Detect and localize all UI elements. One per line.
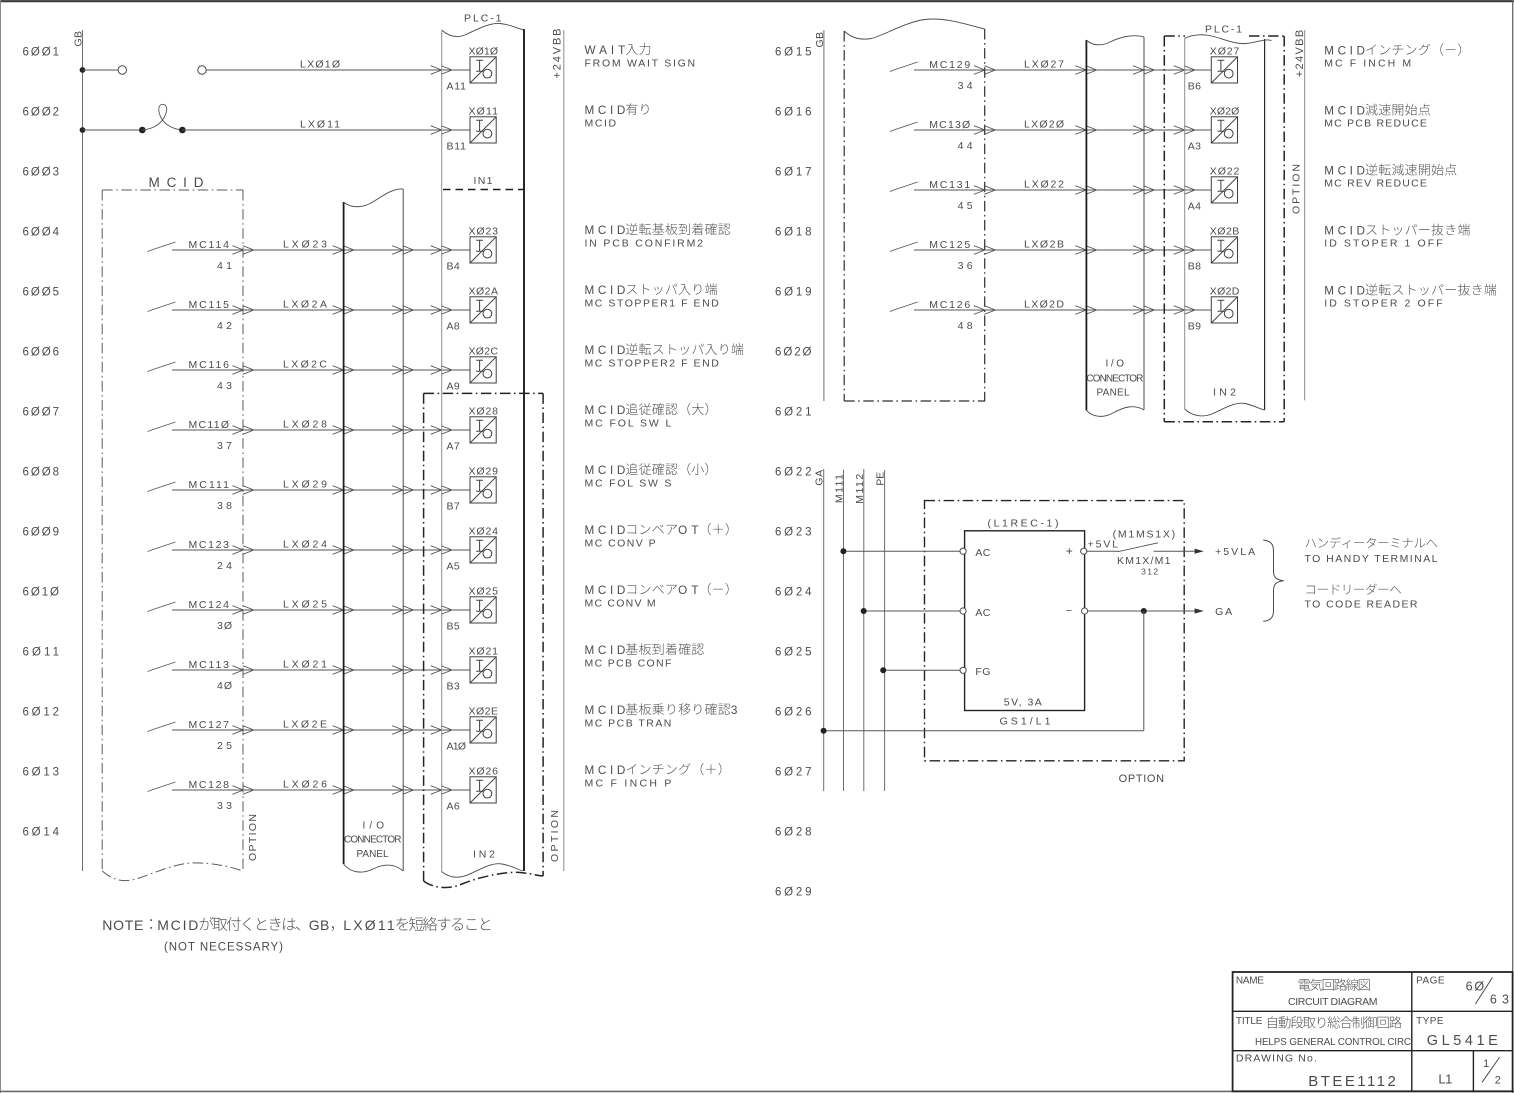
svg-text:+: + [1066,544,1073,558]
svg-text:XØ22: XØ22 [1210,166,1241,178]
svg-text:MC CONV M: MC CONV M [585,598,656,610]
description row 6004: IN PCB CONFIRM2 [585,223,731,237]
arrows (connector crossings) row 6012 [233,726,254,735]
contact switch MC130 [890,122,918,132]
svg-text:A11: A11 [447,81,467,93]
description row 6008: MC FOL SW S [585,463,709,477]
svg-text:XØ25: XØ25 [469,586,500,598]
svg-text:MCID: MCID [585,464,626,477]
PLC I/O input point X023 [470,237,496,263]
arrows (connector crossings) row 6016 [974,126,995,135]
svg-text:B9: B9 [1188,321,1201,333]
PLC-1 right edge [523,29,525,871]
PLC I/O input point X020 [1211,117,1237,143]
svg-text:2: 2 [1495,1074,1501,1086]
wire LX020 row 6016 [914,129,1211,131]
svg-text:6Ø: 6Ø [1466,980,1485,994]
svg-text:A8: A8 [447,321,460,333]
wire LX027 row 6015 [914,69,1211,71]
bus GB (right) [823,30,825,401]
svg-text:B6: B6 [1188,81,1201,93]
svg-text:GB: GB [73,31,85,47]
PLC-1 left edge (right half) [1184,38,1186,409]
svg-text:MC129: MC129 [929,59,970,71]
description row 6012: MC PCB TRAN [585,703,738,717]
PLC-1 break squiggle bottom (right) [1185,403,1265,416]
wire LX02B row 6018 [914,249,1211,251]
brace for external connections [1263,540,1284,621]
svg-text:6ØØ6: 6ØØ6 [23,347,60,359]
svg-text:TITLE: TITLE [1236,1016,1263,1027]
svg-text:6ØØ2: 6ØØ2 [23,107,60,119]
svg-text:6ØØ8: 6ØØ8 [23,467,60,479]
svg-text:B8: B8 [1188,261,1201,273]
contact switch MC124 [148,602,176,612]
svg-text:(L1REC-1): (L1REC-1) [988,518,1059,530]
PLC I/O input point X02B [1211,237,1237,263]
svg-text:3Ø: 3Ø [217,620,232,632]
svg-text:M112: M112 [854,474,866,504]
terminal FG [960,667,966,673]
svg-text:MC126: MC126 [929,299,970,311]
contact switch MC126 [890,302,918,312]
wire LX026 row 6013 [172,789,470,791]
svg-text:MC124: MC124 [189,599,230,611]
wire +5VL output [1087,550,1119,552]
I/O connector panel right: right line [1143,37,1145,410]
terminal AC 1 [960,548,966,554]
svg-text:TYPE: TYPE [1416,1016,1444,1027]
PLC-1 break squiggle top (right) [1185,35,1272,44]
jumper link loop (GB-LX011 short) [142,104,182,130]
description row 6005: MC STOPPER1 F END [585,283,717,297]
PLC I/O input point X025 [470,597,496,623]
svg-text:OPTION: OPTION [247,814,259,861]
title block: 自動段取り総合制御回路 [1268,1016,1402,1028]
svg-text:CONNECTOR: CONNECTOR [344,835,402,846]
svg-text:LXØ11: LXØ11 [343,917,395,933]
arrows (connector crossings) row 6018 [974,246,995,255]
svg-text:FROM WAIT SIGN: FROM WAIT SIGN [585,58,696,70]
svg-text:MC113: MC113 [189,659,230,671]
description TO CODE READER [1307,584,1401,595]
junction on PE [880,667,886,673]
arrow GA [1195,608,1204,613]
svg-text:6ØØ1: 6ØØ1 [23,47,60,59]
svg-text:MC115: MC115 [189,299,230,311]
PLC I/O input point X024 [470,537,496,563]
junction dot right of link [179,127,186,134]
wire LX02C row 6006 [172,369,470,371]
PLC-1 right edge (right half) [1264,39,1266,410]
arrows (connector crossings) row 6013 [233,786,254,795]
title block: 電気回路線図 [1299,979,1370,991]
svg-text:A5: A5 [447,561,460,573]
svg-text:MCID: MCID [585,284,626,297]
junction on GB bus row 6001 [80,67,86,73]
svg-text:FG: FG [975,666,990,678]
PLC-1 left edge [441,31,443,872]
junction on GA output [1141,608,1147,614]
svg-text:NAME: NAME [1236,976,1264,987]
bus M111 [843,470,845,791]
svg-text:312: 312 [1141,567,1158,577]
I/O connector panel left line [343,202,345,864]
description row 6013: MC F INCH P [585,763,722,777]
bus PE [884,470,886,791]
wire LX022 row 6017 [914,189,1211,191]
svg-text:M111: M111 [834,474,846,503]
contact switch MC111 [148,482,176,492]
arrows (connector crossings) row 6019 [974,306,995,315]
svg-text:MCID: MCID [585,644,626,657]
svg-text:XØ2E: XØ2E [469,706,500,718]
svg-text:CIRCUIT DIAGRAM: CIRCUIT DIAGRAM [1288,996,1378,1008]
contact switch MC115 [148,302,176,312]
svg-text:A3: A3 [1188,141,1201,153]
svg-text:MCID: MCID [585,104,626,117]
svg-text:MCID: MCID [585,524,626,537]
contact switch MC128 [148,782,176,792]
svg-text:TO CODE READER: TO CODE READER [1305,599,1418,611]
description row 6009: MC CONV P [585,523,729,537]
svg-text:XØ11: XØ11 [469,106,500,118]
wire LX029 row 6008 [172,489,470,491]
PLC I/O input point X027 [1211,57,1237,83]
contact switch MC113 [148,662,176,672]
wire GB to link row 6002 [83,129,143,131]
svg-text:BTEE1112: BTEE1112 [1308,1073,1396,1090]
description row 6019: ID STOPER 2 OFF [1324,284,1496,298]
arrows (connector crossings) row 6007 [233,426,254,435]
bus M112 [863,469,865,791]
svg-text:6ØØ4: 6ØØ4 [23,227,60,239]
option enclosure box (PLC input group, dash-dot) [424,393,543,887]
I/O connector panel right line [402,189,404,871]
enclosure box MCID (dash-dot) [102,190,243,881]
arrows (connector crossings) row 6008 [233,486,254,495]
svg-text:XØ2C: XØ2C [469,346,500,358]
contact switch MC125 [890,242,918,252]
svg-text:A4: A4 [1188,201,1201,213]
panel break squiggle bottom [344,864,404,872]
svg-text:XØ2A: XØ2A [469,286,500,298]
svg-text:GB: GB [814,32,826,48]
option enclosure box PSU (dash-dot) [925,501,1185,761]
svg-text:A6: A6 [447,801,460,813]
svg-text:6Ø11: 6Ø11 [23,647,60,659]
svg-text:XØ28: XØ28 [469,406,500,418]
svg-text:MC111: MC111 [189,479,230,491]
panel break squiggle top (right) [1086,36,1144,45]
description row 6017: MC REV REDUCE [1324,164,1456,178]
svg-text:OPTION: OPTION [549,810,561,862]
svg-text:MCID: MCID [1324,45,1365,58]
svg-text:PLC-1: PLC-1 [464,13,502,25]
power line +24VBB (left) [563,30,565,871]
svg-text:OPTION: OPTION [1291,164,1303,214]
PLC I/O input point X02C [470,357,496,383]
PLC I/O input point X022 [1211,177,1237,203]
arrows (connector crossings) row 6009 [233,546,254,555]
svg-text:CONNECTOR: CONNECTOR [1086,374,1143,385]
svg-text:KM1X/M1: KM1X/M1 [1117,555,1171,567]
arrows (connector crossings) row 6010 [233,606,254,615]
junction on M112 [861,608,867,614]
svg-text:MC PCB REDUCE: MC PCB REDUCE [1324,118,1427,130]
svg-text:MC11Ø: MC11Ø [189,419,230,431]
svg-text:GB: GB [309,917,330,933]
wire LX02D row 6019 [914,309,1211,311]
arrows (connector crossings) row 6011 [233,666,254,675]
title block frame [1233,972,1513,1091]
svg-text:XØ27: XØ27 [1210,46,1241,58]
svg-text:AC: AC [975,547,990,559]
power supply unit U: L1REC-1 rectangle [965,531,1085,711]
description row 6006: MC STOPPER2 F END [585,343,744,357]
junction on M111 [840,548,846,554]
power line +24VBB (right) [1304,30,1306,400]
svg-text:XØ1Ø: XØ1Ø [469,46,500,58]
svg-text:4Ø: 4Ø [217,680,232,692]
svg-text:MC PCB CONF: MC PCB CONF [585,658,672,670]
wire PE to FG input (6025) [883,669,960,671]
svg-text:MCID: MCID [1324,165,1365,178]
svg-text:MCID: MCID [585,344,626,357]
wire to +5VLA arrow [1154,550,1195,552]
svg-text:XØ29: XØ29 [469,466,500,478]
note text [102,917,490,933]
svg-text:MC123: MC123 [189,539,230,551]
PLC-1 break squiggle bottom [442,864,524,877]
wire M112 to AC input (6024) [864,610,961,612]
svg-text:6Ø1Ø: 6Ø1Ø [23,587,60,599]
svg-text:MC STOPPER2 F END: MC STOPPER2 F END [585,358,720,370]
svg-text:OPTION: OPTION [1119,773,1166,785]
arrow into PLC row 6001 [431,66,452,75]
svg-text:6ØØ5: 6ØØ5 [23,287,60,299]
contact switch MC110 [148,422,176,432]
svg-text:MC FOL SW L: MC FOL SW L [585,418,672,430]
svg-text:+24VBB: +24VBB [552,29,564,79]
description row 6018: ID STOPER 1 OFF [1324,224,1470,238]
svg-text:(M1MS1X): (M1MS1X) [1113,529,1176,541]
contact switch MC127 [148,722,176,732]
arrows (connector crossings) row 6006 [233,366,254,375]
svg-text:+5VLA: +5VLA [1215,546,1255,558]
IN1 section dashed line [443,189,524,191]
wire LX025 row 6010 [172,609,470,611]
svg-text:XØ26: XØ26 [469,766,500,778]
svg-text:IN1: IN1 [474,175,493,187]
terminal circle right row 6001 [198,66,206,74]
svg-text:L1: L1 [1438,1071,1452,1086]
description row 6002: MCID [585,103,649,117]
svg-text:3: 3 [731,704,738,717]
svg-text:AC: AC [975,607,990,619]
svg-text:MCID: MCID [585,704,626,717]
contact switch M1MS1X blade [1118,543,1158,552]
svg-text:HELPS GENERAL CONTROL CIRC: HELPS GENERAL CONTROL CIRC [1255,1037,1411,1048]
panel break squiggle bottom (right) [1086,407,1144,417]
svg-text:−: − [1066,605,1072,617]
junction dot left of link [139,127,146,134]
wire GB to terminal row 6001 [83,69,119,71]
terminal AC 2 [960,608,966,614]
svg-text:TO HANDY TERMINAL: TO HANDY TERMINAL [1305,553,1438,565]
svg-text:MC13Ø: MC13Ø [929,119,970,131]
svg-text:XØ23: XØ23 [469,226,500,238]
wire LX02A row 6005 [172,309,470,311]
bus GB (left) [82,30,84,871]
svg-text:MC116: MC116 [189,359,230,371]
svg-text:1: 1 [1483,1058,1489,1070]
PLC I/O input point X021 [470,657,496,683]
svg-text:WAIT: WAIT [585,44,626,57]
wire LX028 row 6007 [172,429,470,431]
enclosure break squiggle top right [844,19,985,39]
svg-text:6ØØ7: 6ØØ7 [23,407,60,419]
svg-text:6ØØ3: 6ØØ3 [23,167,60,179]
arrows (connector crossings) row 6017 [974,186,995,195]
arrows (connector crossings) row 6005 [233,306,254,315]
svg-text:XØ2Ø: XØ2Ø [1210,106,1241,118]
svg-text:B5: B5 [447,621,460,633]
arrow +5VLA [1195,549,1204,554]
wire GA return vertical [1143,611,1145,731]
PLC I/O input point X011 [470,117,496,143]
svg-text:XØ21: XØ21 [469,646,500,658]
bus GA [823,469,825,791]
svg-text:MCID: MCID [1324,285,1365,298]
svg-text:XØ2B: XØ2B [1210,226,1241,238]
contact switch MC116 [148,362,176,372]
svg-text:MC131: MC131 [929,179,970,191]
PLC I/O input point X02E [470,717,496,743]
svg-text:MC128: MC128 [189,779,230,791]
contact switch MC123 [148,542,176,552]
PLC I/O input point X028 [470,417,496,443]
PLC-1 break squiggle top [442,23,524,36]
svg-text:(NOT NECESSARY): (NOT NECESSARY) [164,942,283,954]
PLC I/O input point X02A [470,297,496,323]
svg-text:MC F INCH M: MC F INCH M [1324,58,1411,70]
wire LX021 row 6011 [172,669,470,671]
svg-text:PANEL: PANEL [1097,387,1130,398]
PLC I/O input point X026 [470,777,496,803]
svg-text:MCID: MCID [585,118,617,130]
svg-text:A1Ø: A1Ø [447,741,467,753]
svg-text:XØ24: XØ24 [469,526,500,538]
svg-text:PLC-1: PLC-1 [1205,24,1242,36]
svg-text:MCID: MCID [585,584,626,597]
PLC I/O input point X029 [470,477,496,503]
PLC I/O input point X010 [470,57,496,83]
svg-text:MC PCB TRAN: MC PCB TRAN [585,718,672,730]
svg-text:PANEL: PANEL [357,849,389,860]
arrow into PLC row 6002 [431,126,452,135]
svg-text:MC REV REDUCE: MC REV REDUCE [1324,178,1427,190]
junction on GA bus [821,728,827,734]
description row 6015: MC F INCH M [1324,43,1461,57]
svg-text:MCID: MCID [1324,225,1365,238]
svg-text:MCID: MCID [585,764,626,777]
svg-text:B3: B3 [447,681,460,693]
PLC I/O input point X02D [1211,297,1237,323]
contact switch MC114 [148,242,176,252]
svg-text:DRAWING No.: DRAWING No. [1236,1053,1317,1065]
svg-text:GA: GA [814,470,826,486]
wire LX023 row 6004 [172,249,470,251]
contact switch MC129 [890,62,918,72]
description row 6016: MC PCB REDUCE [1324,104,1430,118]
contact switch MC131 [890,182,918,192]
svg-text:NOTE: NOTE [102,917,143,933]
svg-text:6ØØ9: 6ØØ9 [23,527,60,539]
description TO HANDY TERMINAL [1306,537,1438,548]
svg-text:MCID: MCID [585,404,626,417]
description row 6010: MC CONV M [585,583,729,597]
svg-text:PE: PE [875,472,887,486]
svg-text:MC STOPPER1 F END: MC STOPPER1 F END [585,298,720,310]
svg-text:B11: B11 [447,141,467,153]
I/O connector panel right: left line [1085,40,1087,410]
description row 6011: MC PCB CONF [585,643,704,657]
enclosure box right (dash-dot, external unit) [844,29,985,401]
svg-text:MC125: MC125 [929,239,970,251]
svg-text:A7: A7 [447,441,460,453]
wire LX024 row 6009 [172,549,470,551]
svg-text:B4: B4 [447,261,460,273]
description row 6001: FROM WAIT SIGN [585,43,651,57]
wire M111 to AC input (6023) [843,550,960,552]
option enclosure box right (dash-dot) [1164,36,1284,422]
svg-text:5V, 3A: 5V, 3A [1004,697,1042,709]
wire LX010 row 6001 [206,69,470,71]
junction on GB bus row 6002 [80,127,86,133]
svg-text:MC114: MC114 [189,239,230,251]
wire GA return horizontal [824,730,1144,732]
terminal circle left row 6001 [118,66,126,74]
svg-text:MC CONV P: MC CONV P [585,538,656,550]
svg-text:MCID: MCID [149,175,206,190]
svg-text:MCID: MCID [1324,105,1365,118]
panel break squiggle top [344,189,404,207]
arrows (connector crossings) row 6015 [974,66,995,75]
svg-text:MC127: MC127 [189,719,230,731]
description row 6007: MC FOL SW L [585,403,709,417]
arrows (connector crossings) row 6004 [233,246,254,255]
svg-text:B7: B7 [447,501,460,513]
svg-text:6Ø2Ø: 6Ø2Ø [775,347,812,359]
wire LX011 row 6002 [182,129,470,131]
wire LX02E row 6012 [172,729,470,731]
svg-text:PAGE: PAGE [1416,976,1445,987]
svg-text:MCID: MCID [585,224,626,237]
svg-text:XØ2D: XØ2D [1210,286,1241,298]
wire GA output [1088,610,1195,612]
svg-text:A9: A9 [447,381,460,393]
svg-text:MCID: MCID [157,917,198,933]
